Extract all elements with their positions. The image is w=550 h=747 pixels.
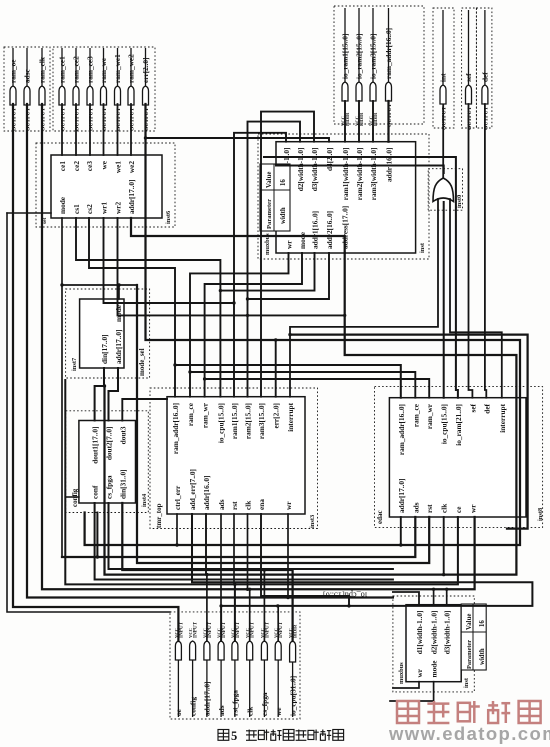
output port ram_oe [9,48,18,131]
wire net def [485,104,486,398]
output port ram_we2 [127,48,136,131]
block muxbus U1 [276,142,416,253]
wire adac ram_wr [205,379,430,398]
group box io_ram [334,6,424,124]
wire branch we port [277,606,279,641]
svg-text:d4[2..0]: d4[2..0] [325,148,334,172]
input port ads [217,621,228,717]
svg-text:ads: ads [411,502,420,513]
wire inst7.addr feed [109,368,119,421]
svg-text:clk: clk [440,503,449,513]
wire ram_ce1 to inst6 [61,104,63,155]
wire inst6.cs1 [76,218,220,397]
wire ram_we2 to inst6 [130,104,132,155]
input port rst_fpga [230,621,241,717]
block inst7 group box [66,289,150,378]
block inst4 [79,421,136,504]
wire inst7 mode tap [118,285,120,299]
svg-text:ce: ce [454,506,463,513]
svg-text:io_ram1[15..0]: io_ram1[15..0] [341,34,350,79]
label muxbus [264,233,271,255]
svg-text:ram_wr: ram_wr [425,403,434,429]
svg-text:d3[width-1..0]: d3[width-1..0] [443,611,452,655]
svg-text:ads: ads [217,705,226,716]
junction [60,283,63,286]
wire adac ram_addr [175,365,401,398]
muxbus U1 parameter table [260,164,290,231]
block edac [389,398,526,517]
svg-text:wr: wr [415,668,424,677]
svg-text:oe: oe [174,708,183,716]
svg-text:ram_ce: ram_ce [411,403,420,427]
wire branch d4 [146,138,330,142]
wire net addr16 [205,514,207,575]
wire branch err inst3 [275,340,277,397]
wire inst6.wr2 [118,218,345,315]
junction [343,314,346,317]
watermark cjk [397,701,541,723]
svg-text:ram_we2: ram_we2 [127,54,136,83]
output port ram_we1 [113,48,122,131]
muxbus U3 pin labels [415,611,452,678]
wire net cs_fpga4 [109,503,393,569]
svg-text:ram1[15..0]: ram1[15..0] [230,403,239,439]
svg-text:clk: clk [246,706,255,716]
svg-text:ram1[width-1..0]: ram1[width-1..0] [341,148,350,201]
svg-text:cs_fpga: cs_fpga [105,475,114,499]
svg-text:io_cpu[15..0]: io_cpu[15..0] [216,403,225,443]
svg-text:INPUT: INPUT [250,621,256,638]
svg-text:ram2[15..0]: ram2[15..0] [244,403,253,439]
output port ram_addr[16..0] [384,8,393,127]
svg-text:inst6: inst6 [165,210,172,224]
output port io_ram2[15..0] [354,8,364,126]
svg-text:int: int [439,73,448,82]
label inst4 [141,493,148,507]
output port err[2..0] [141,48,150,131]
svg-text:config: config [188,697,197,716]
wire io_ram2 [358,101,360,142]
wire net set [7,212,51,214]
junction [248,588,251,591]
svg-text:io_cpu[15..0]: io_cpu[15..0] [440,404,449,444]
output port sef [464,10,473,130]
wire inst6.cs2 [89,218,175,397]
svg-text:edac: edac [376,510,384,524]
svg-text:ram2[width-1..0]: ram2[width-1..0] [355,148,364,201]
svg-text:INPUT: INPUT [264,621,270,638]
wire config stub [66,496,79,498]
wire inst6.addr bus [131,218,345,253]
wire branch clk port [249,589,251,641]
wire muxbus1.addr1 [220,253,314,291]
svg-text:ce3: ce3 [85,161,94,171]
wire adac io_cpu feed [276,166,444,174]
wire ram_ce2 to inst6 [75,104,77,155]
svg-text:mode_sel: mode_sel [138,348,146,376]
svg-text:ram_ce: ram_ce [186,402,195,426]
wire net interrupt right [290,335,528,529]
svg-text:16: 16 [280,179,287,186]
label inst0 [456,195,463,208]
output port ram_we [99,48,108,131]
svg-text:ram3[15..0]: ram3[15..0] [257,403,266,439]
svg-text:ram_clk: ram_clk [38,56,47,83]
label inst8 [537,508,544,521]
junction [96,555,99,558]
input port we [274,621,285,717]
svg-text:inst3: inst3 [309,515,316,528]
wire net set long [7,213,170,612]
svg-text:err[2..0]: err[2..0] [272,403,281,429]
wire muxbus1.addr2 [248,253,330,299]
group box 1 [4,47,50,131]
muxbus U3 parameter table [461,604,486,670]
svg-text:io_cpu[31..0]: io_cpu[31..0] [288,676,297,716]
wire branch adac addr [400,517,402,545]
svg-text:Parameter: Parameter [266,199,273,229]
svg-text:din[31..0]: din[31..0] [118,469,127,499]
block muxbus U1 group box [258,134,429,259]
svg-text:sef: sef [468,403,477,412]
block inst4 group box [66,411,149,513]
wire net oe [13,104,178,641]
junction [232,301,235,304]
wire branch adac clk [443,517,445,575]
junction [188,370,191,373]
wire branch conf2 [96,513,98,558]
svg-text:adsc: adsc [23,68,32,83]
svg-text:cs1: cs1 [72,204,81,214]
wire muxbus2 wr [393,682,419,688]
svg-text:ram_oe: ram_oe [9,59,18,83]
wire net ads3 [220,514,222,606]
svg-text:interrupt: interrupt [498,403,507,432]
svg-text:we2: we2 [127,161,136,174]
block inst3 group box [150,388,318,529]
wire net rst_fpga input [65,380,235,641]
wire net d3 [261,112,314,397]
svg-text:d2[width-1..0]: d2[width-1..0] [430,611,439,655]
svg-text:ram_addr[16..0]: ram_addr[16..0] [384,28,393,79]
svg-text:inst: inst [463,677,470,688]
wire net mode_sel [137,285,429,563]
svg-text:wr: wr [285,240,294,249]
svg-text:conf: conf [91,485,100,499]
input port config [188,621,199,717]
edac pin labels [397,403,507,513]
wire ram_we1 to inst6 [117,104,119,155]
svg-text:addr[17..0]: addr[17..0] [203,682,212,716]
block inst6 [51,155,162,218]
svg-text:mode: mode [298,231,307,249]
wire net d2 [248,122,301,397]
svg-text:mode: mode [58,196,67,214]
svg-text:we1: we1 [114,161,123,174]
block inst3 [167,397,305,514]
muxbus U1 pin labels [282,148,394,250]
svg-text:d3[width-1..0]: d3[width-1..0] [310,148,319,192]
wire inst4.dout3 [122,399,167,421]
svg-text:cs2: cs2 [85,204,94,214]
junction [233,583,236,586]
input port clk [245,621,256,717]
wire net conf [95,503,393,580]
group box 2 [53,47,155,131]
label inst3 [309,515,316,528]
wire adac io_cpu feed lower [443,202,445,398]
junction [286,596,289,599]
junction [117,283,120,286]
svg-text:mode: mode [430,660,439,678]
junction [263,568,266,571]
wire branch d3 mux2 [446,589,448,604]
input port addr[17..0] [202,621,213,717]
svg-text:io_ram3[15..0]: io_ram3[15..0] [369,34,378,79]
junction [246,314,249,317]
wire inst7.din feed [95,368,104,421]
svg-text:5: 5 [231,729,237,743]
svg-text:cs_fpga: cs_fpga [260,692,269,716]
junction [173,363,176,366]
svg-text:io_ram[21..0]: io_ram[21..0] [454,404,463,446]
svg-text:www.edatop.com: www.edatop.com [388,723,550,744]
svg-text:muxbus: muxbus [398,662,405,684]
label muxbus U3 [398,662,405,684]
svg-text:rst: rst [230,501,239,510]
group box sef [462,8,477,128]
output port def [481,10,490,130]
input port cs_fpga [260,621,271,717]
svg-text:io_ram2[15..0]: io_ram2[15..0] [355,34,364,79]
svg-text:width: width [280,207,287,224]
wire ram_addr port [387,101,389,142]
label inst U3 [463,677,470,688]
svg-text:ram_wr: ram_wr [201,402,210,428]
wire branch d2 mux2 [433,589,435,604]
label inst7 [71,357,78,371]
svg-text:err[2..0]: err[2..0] [141,57,150,83]
watermark url [388,723,550,744]
wire ram_we to inst6 [103,104,105,155]
label tmr_top [155,503,163,528]
block inst6 group box [36,143,175,227]
svg-text:INPUT: INPUT [278,621,284,638]
wire or in2 [450,199,502,398]
svg-text:def: def [481,72,490,82]
svg-text:inst7: inst7 [71,357,78,371]
svg-text:inst4: inst4 [141,493,148,507]
svg-text:tmr_top: tmr_top [155,503,163,528]
svg-text:interrupt: interrupt [286,402,295,431]
svg-text:sef: sef [464,73,473,82]
svg-text:INPUT: INPUT [193,621,199,638]
output port io_ram3[15..0] [368,8,378,126]
svg-text:we: we [274,707,283,716]
wire net d1 [234,133,286,397]
input port io_cpu[31..0] [288,624,298,717]
svg-text:ram_addr[16..0]: ram_addr[16..0] [171,403,180,454]
block muxbus U3 group box [393,596,474,692]
label inst [419,242,426,253]
svg-text:ram_we: ram_we [99,57,108,83]
wire branch adac ce [235,517,458,584]
svg-text:wr2: wr2 [114,201,123,214]
svg-text:Value: Value [266,172,273,188]
wire net clk3 [247,514,249,589]
svg-text:wr: wr [284,501,293,510]
or-gate group box [428,169,462,211]
svg-text:ram_we1: ram_we1 [113,54,122,83]
label config [71,488,79,507]
wire net ena [261,514,349,606]
svg-text:dout2[7..0]: dout2[7..0] [105,427,114,461]
wire branch ctrl_err [176,514,178,545]
svg-text:ads: ads [217,499,226,510]
label mode_sel [138,348,146,376]
junction [246,588,249,591]
group box def [476,8,492,128]
input group box [170,612,300,719]
wire or in1 [290,199,438,397]
wire net err [85,104,520,545]
block muxbus U3 [406,605,461,682]
wire io_ram1 [344,101,346,142]
output port ram_clk [38,48,47,131]
svg-text:addr[17..0]: addr[17..0] [114,330,123,364]
label set [42,218,48,224]
svg-text:ram_addr[16..0]: ram_addr[16..0] [397,404,406,455]
output port ram_ce2 [72,48,81,131]
wire ram_ce3 to inst6 [89,104,91,155]
junction [276,604,279,607]
svg-text:def: def [482,403,491,413]
svg-text:mode: mode [114,304,123,322]
svg-text:din[17..0]: din[17..0] [100,334,109,364]
svg-text:ce2: ce2 [72,161,81,171]
wire net din31 [122,503,292,641]
output port ram_ce3 [86,48,95,131]
svg-text:ram_ce2: ram_ce2 [72,56,81,83]
svg-text:ena: ena [257,499,266,510]
junction [205,573,208,576]
svg-text:Parameter: Parameter [466,640,473,669]
inst4 pin labels [91,426,128,499]
svg-text:rst_fpga: rst_fpga [231,690,240,716]
svg-text:ram_ce1: ram_ce1 [58,56,67,83]
or-gate U2 [433,178,454,202]
wire net ram_clk [42,104,475,589]
svg-text:width: width [479,648,486,665]
junction [445,588,448,591]
inst6 pin labels [58,160,136,214]
svg-text:inst0: inst0 [456,195,463,208]
input port oe [174,621,185,717]
svg-text:inst8: inst8 [537,508,544,521]
svg-text:addr[17..0]: addr[17..0] [397,479,406,513]
block inst7 [80,299,124,368]
wire branch cs_fpga port [263,570,265,641]
junction [432,588,435,591]
wire muxbus2 mode [390,682,434,701]
wire net wr3 [287,514,289,598]
wire muxbus1.wr [190,253,289,397]
svg-text:add_err[7..0]: add_err[7..0] [188,469,197,510]
svg-text:ce1: ce1 [58,161,67,171]
svg-text:clk: clk [244,500,253,510]
svg-text:addr[17..0]: addr[17..0] [127,180,136,214]
svg-text:wr1: wr1 [100,201,109,214]
block edac group box [375,387,543,528]
junction [203,377,206,380]
junction [288,333,291,336]
svg-text:addr1[16..0]: addr1[16..0] [311,211,320,249]
svg-text:d1[width-1..0]: d1[width-1..0] [415,611,424,655]
inst7 pin labels [100,304,123,364]
svg-text:inst: inst [419,242,426,253]
svg-text:16: 16 [479,620,486,627]
svg-text:ram3[width-1..0]: ram3[width-1..0] [369,148,378,201]
svg-text:addr[16..0]: addr[16..0] [202,476,211,510]
junction [144,136,147,139]
output port int [439,10,448,130]
junction [399,543,402,546]
wire inst6.wr1 [104,218,235,303]
svg-text:Value: Value [466,614,473,630]
output port adsc [23,48,32,131]
wire net sef [469,104,473,398]
svg-text:wr: wr [468,504,477,513]
junction [442,573,445,576]
junction [103,384,106,387]
wire branch addr17 port [206,575,208,641]
output port io_ram1[15..0] [340,8,350,126]
wire io_ram3 [372,101,374,142]
inst3 pin labels [171,402,295,510]
svg-text:INPUT: INPUT [207,621,213,638]
junction [246,297,249,300]
label inst6 [165,210,172,224]
wire net adsc [27,104,393,598]
svg-text:ram_ce3: ram_ce3 [86,56,95,83]
junction [347,604,350,607]
wire adac ram_ce [190,372,415,398]
wire net int [442,105,444,178]
svg-text:dout1[17..0]: dout1[17..0] [91,427,100,464]
wire net A ads [62,517,415,557]
svg-text:d2[width-1..0]: d2[width-1..0] [296,148,305,192]
wire muxbus1.mode [205,253,302,397]
wire net add_err [192,514,532,641]
svg-text:ctrl_err: ctrl_err [173,485,182,510]
net label io_cpu[15..0] [323,591,367,600]
wire net rst [233,514,235,584]
wire net address bus [105,253,517,575]
junction [219,604,222,607]
label edac [376,510,384,524]
wire d1 mux2 feed [393,592,419,605]
junction [219,289,222,292]
group box int [433,8,454,128]
output port ram_ce1 [58,48,67,131]
junction [175,543,178,546]
svg-text:addr2[16..0]: addr2[16..0] [325,211,334,249]
wire adac io_ram feed [264,157,458,398]
junction [274,338,277,341]
svg-text:dout3: dout3 [118,426,127,444]
svg-text:rst: rst [425,504,434,513]
caption text [218,729,344,743]
